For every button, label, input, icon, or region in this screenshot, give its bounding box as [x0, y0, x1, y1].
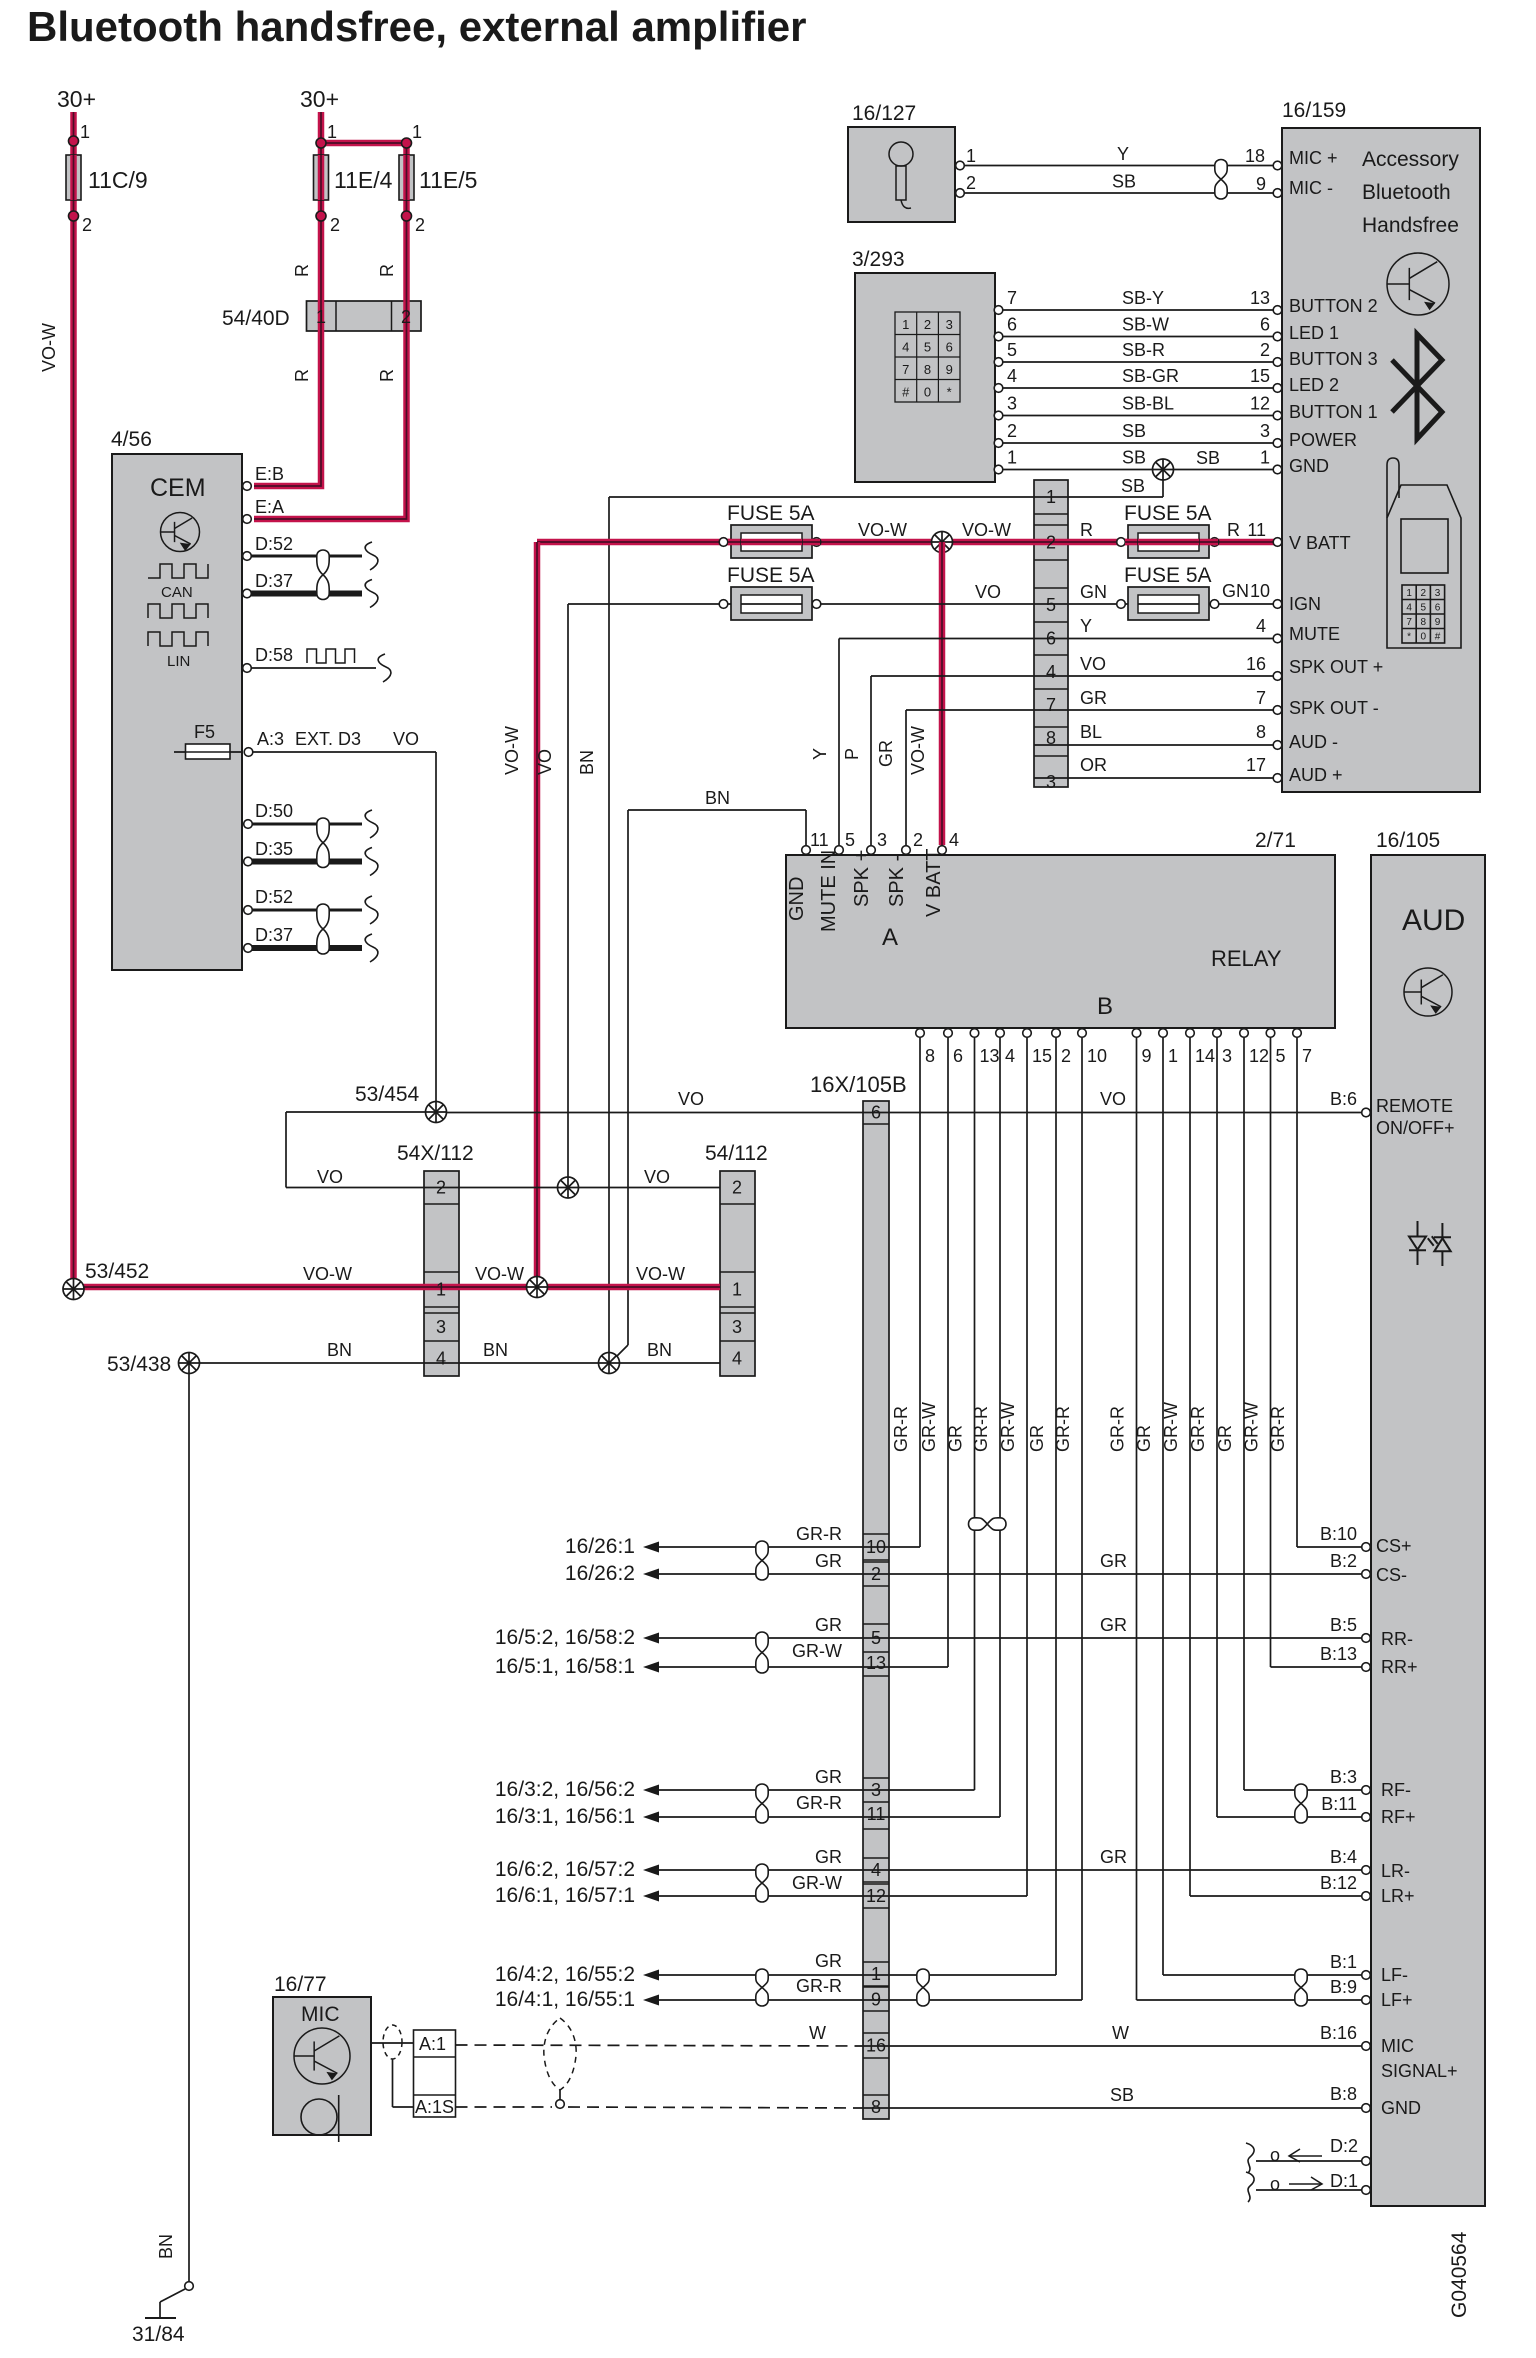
relay pin 7 bottom [1293, 1029, 1302, 1038]
svg-text:CS-: CS- [1376, 1565, 1407, 1585]
wire GR-R from relay pin 10 [1081, 1038, 1083, 2000]
svg-text:15: 15 [1250, 366, 1270, 386]
svg-text:54X/112: 54X/112 [397, 1142, 474, 1165]
svg-text:7: 7 [1406, 617, 1412, 628]
wire GR-R from relay pin 9 [1136, 1038, 1138, 2000]
svg-text:VO-W: VO-W [858, 520, 907, 540]
pin 2 of fuse 11E/4 [316, 211, 326, 221]
svg-text:1: 1 [1260, 448, 1270, 468]
svg-text:53/438: 53/438 [107, 1353, 171, 1376]
svg-text:3: 3 [1046, 772, 1056, 792]
relay pin 10 bottom [1078, 1029, 1087, 1038]
wire W cell 16 to AUD B:16 [863, 2045, 1364, 2047]
svg-text:2/71: 2/71 [1255, 829, 1296, 852]
svg-text:BL: BL [1080, 722, 1102, 742]
transistor symbol in 16/159 [1387, 253, 1449, 315]
wire D:35 with break [252, 859, 362, 865]
svg-text:GND: GND [1381, 2098, 1421, 2118]
svg-text:FUSE 5A: FUSE 5A [1124, 564, 1212, 587]
svg-text:OR: OR [1080, 755, 1107, 775]
svg-text:4: 4 [1005, 1046, 1015, 1066]
twisted pair symbol 16/4 pair [756, 1969, 768, 2006]
svg-text:GR: GR [876, 740, 896, 767]
svg-text:REMOTE: REMOTE [1376, 1096, 1453, 1116]
svg-text:14: 14 [1195, 1046, 1215, 1066]
svg-text:5: 5 [1421, 603, 1427, 614]
svg-text:VO-W: VO-W [636, 1264, 685, 1284]
pin E:B of CEM [243, 482, 252, 491]
svg-text:MUTE: MUTE [1289, 624, 1340, 644]
svg-text:GR: GR [1080, 688, 1107, 708]
svg-text:4: 4 [1406, 603, 1412, 614]
wire R branch through fuse 11E/5 and 54/40D pin 2 to CEM E:A [254, 143, 407, 519]
svg-text:GR: GR [815, 1951, 842, 1971]
wire D:52 CAN with break [251, 555, 362, 558]
svg-text:1: 1 [1168, 1046, 1178, 1066]
svg-text:7: 7 [902, 362, 909, 377]
svg-text:MIC: MIC [1381, 2036, 1414, 2056]
wire GR from relay pin 13 [974, 1038, 976, 1790]
svg-text:11: 11 [810, 830, 829, 850]
svg-text:2: 2 [1046, 533, 1056, 553]
svg-text:GR: GR [815, 1615, 842, 1635]
relay pin 11 GND [802, 846, 811, 855]
svg-text:8: 8 [1421, 617, 1427, 628]
svg-text:7: 7 [1046, 695, 1056, 715]
svg-text:2: 2 [924, 317, 931, 332]
svg-text:16/5:2, 16/58:2: 16/5:2, 16/58:2 [495, 1626, 635, 1649]
twisted pair symbol 16/6 pair [756, 1864, 768, 1902]
relay pin 15 bottom [1023, 1029, 1032, 1038]
svg-text:5: 5 [1046, 595, 1056, 615]
svg-text:Y: Y [810, 748, 830, 760]
twisted pair symbol 16/3 pair [756, 1784, 768, 1823]
svg-text:11E/5: 11E/5 [419, 167, 477, 193]
svg-text:6: 6 [1007, 315, 1017, 335]
pin 2 of fuse 11C/9 [69, 211, 79, 221]
svg-text:B:9: B:9 [1330, 1977, 1357, 1997]
svg-text:5: 5 [1007, 340, 1017, 360]
svg-text:D:52: D:52 [255, 534, 293, 554]
wire GR from relay pin 1 [1162, 1038, 1164, 1975]
svg-text:6: 6 [1260, 315, 1270, 335]
svg-text:13: 13 [866, 1653, 886, 1673]
svg-text:BN: BN [647, 1340, 672, 1360]
svg-text:V BATT: V BATT [1289, 533, 1351, 553]
pin D:58 of CEM [243, 664, 252, 673]
svg-text:D:2: D:2 [1330, 2136, 1358, 2156]
pin D:52 lower of CEM [244, 906, 253, 915]
svg-text:RF+: RF+ [1381, 1807, 1416, 1827]
svg-text:LED 2: LED 2 [1289, 375, 1339, 395]
svg-text:2: 2 [82, 215, 92, 235]
connector A:1 / A:1S [414, 2030, 456, 2117]
pin 1 of 16/127 [956, 161, 965, 170]
svg-text:o: o [1270, 2174, 1280, 2194]
svg-text:31/84: 31/84 [132, 2323, 185, 2346]
svg-text:8: 8 [925, 1046, 935, 1066]
svg-text:16/4:2, 16/55:2: 16/4:2, 16/55:2 [495, 1963, 635, 1986]
svg-text:5: 5 [845, 830, 855, 850]
svg-text:0: 0 [924, 385, 931, 400]
svg-text:SPK OUT +: SPK OUT + [1289, 657, 1383, 677]
svg-text:16/159: 16/159 [1282, 99, 1346, 122]
svg-text:1: 1 [316, 307, 326, 327]
svg-text:10: 10 [866, 1537, 886, 1557]
svg-text:POWER: POWER [1289, 430, 1357, 450]
svg-text:AUD: AUD [1402, 904, 1465, 937]
mobile phone symbol [1387, 458, 1461, 648]
svg-text:7: 7 [1007, 288, 1017, 308]
svg-text:V BATT: V BATT [923, 848, 945, 917]
wire GR from relay pin 12 to AUD B:3 [1244, 1789, 1364, 1791]
svg-text:16/4:1, 16/55:1: 16/4:1, 16/55:1 [495, 1988, 635, 2011]
svg-text:CAN: CAN [161, 584, 193, 601]
relay pin 12 bottom [1240, 1029, 1249, 1038]
svg-text:1: 1 [1406, 588, 1412, 599]
wire GR-R from relay pin 8 [919, 1038, 921, 1547]
svg-text:ON/OFF+: ON/OFF+ [1376, 1118, 1455, 1138]
wire D:50 with break [252, 823, 362, 826]
svg-text:B:6: B:6 [1330, 1089, 1357, 1109]
svg-text:EXT. D3: EXT. D3 [295, 729, 361, 749]
splice node on VO-W at relay feed [932, 532, 953, 553]
svg-text:R: R [377, 264, 397, 277]
wire BL from cell 8 to 16/159 AUD- [1034, 744, 1274, 746]
svg-text:FUSE 5A: FUSE 5A [727, 502, 815, 525]
svg-text:SB: SB [1122, 421, 1146, 441]
pin D:37 of CEM [243, 589, 252, 598]
svg-text:*: * [947, 385, 952, 400]
svg-text:3: 3 [871, 1780, 881, 1800]
svg-text:B:4: B:4 [1330, 1847, 1357, 1867]
svg-text:3: 3 [436, 1317, 446, 1337]
svg-text:8: 8 [1256, 722, 1266, 742]
bluetooth rune symbol [1392, 334, 1442, 439]
svg-text:D:50: D:50 [255, 801, 293, 821]
twisted pair symbol D:50/D:35 [317, 818, 329, 868]
svg-text:GR: GR [1100, 1551, 1127, 1571]
svg-text:E:A: E:A [255, 497, 284, 517]
svg-text:BN: BN [705, 788, 730, 808]
svg-text:BUTTON 2: BUTTON 2 [1289, 296, 1378, 316]
svg-text:G040564: G040564 [1448, 2231, 1471, 2318]
splice node on GND wire [1153, 459, 1174, 480]
svg-text:30+: 30+ [300, 86, 339, 112]
svg-text:5: 5 [924, 340, 931, 355]
wire GR-R from relay pin 9 to AUD B:9 [1137, 1999, 1365, 2001]
transistor symbol in 16/77 [294, 2028, 350, 2084]
wire VO from cell 4 to 16/159 SPK OUT+ and relay SPK+ [871, 675, 1274, 677]
svg-text:16/3:1, 16/56:1: 16/3:1, 16/56:1 [495, 1805, 635, 1828]
fuse 11C/9 [66, 155, 81, 200]
svg-text:Y: Y [1117, 144, 1129, 164]
svg-text:A:1S: A:1S [415, 2097, 454, 2117]
svg-text:2: 2 [415, 215, 425, 235]
svg-text:GR-R: GR-R [1188, 1406, 1208, 1452]
svg-text:1: 1 [1007, 448, 1017, 468]
svg-text:A:3: A:3 [257, 729, 284, 749]
svg-text:B:8: B:8 [1330, 2084, 1357, 2104]
svg-text:3: 3 [1435, 588, 1441, 599]
wire GR from relay pin 1 to AUD B:1 [1163, 1974, 1364, 1976]
svg-text:7: 7 [1302, 1046, 1312, 1066]
wire GR-R from relay pin 4 [999, 1038, 1001, 1817]
svg-text:4: 4 [436, 1349, 446, 1369]
svg-text:16/3:2, 16/56:2: 16/3:2, 16/56:2 [495, 1778, 635, 1801]
svg-text:2: 2 [401, 307, 411, 327]
svg-text:2: 2 [1421, 588, 1427, 599]
svg-text:MIC +: MIC + [1289, 148, 1338, 168]
svg-text:2: 2 [1260, 340, 1270, 360]
wire GR from cell 7 to 16/159 SPK OUT- and relay SPK- [906, 709, 1274, 711]
relay pin 5 MUTE IN [835, 846, 844, 855]
svg-text:1: 1 [80, 122, 90, 142]
svg-text:2: 2 [871, 1564, 881, 1584]
svg-text:1: 1 [732, 1280, 742, 1300]
svg-text:GR-W: GR-W [1242, 1402, 1262, 1452]
svg-text:6: 6 [953, 1046, 963, 1066]
relay pin 14 bottom [1186, 1029, 1195, 1038]
relay pin 8 bottom [916, 1029, 925, 1038]
svg-text:SB-W: SB-W [1122, 315, 1169, 335]
svg-text:LF+: LF+ [1381, 1990, 1413, 2010]
svg-text:BN: BN [483, 1340, 508, 1360]
svg-text:GND: GND [1289, 456, 1329, 476]
wire GR from relay pin 12 [1243, 1038, 1245, 1790]
svg-text:CEM: CEM [150, 474, 206, 502]
svg-text:16X/105B: 16X/105B [810, 1072, 907, 1097]
svg-text:54/40D: 54/40D [222, 307, 290, 330]
svg-text:16/26:2: 16/26:2 [565, 1562, 635, 1585]
wire GR-W from relay pin 15 [1026, 1038, 1028, 1896]
svg-text:6: 6 [946, 340, 953, 355]
connector 54X/112 body [424, 1171, 459, 1376]
svg-text:16: 16 [866, 2036, 886, 2056]
shield drain to ground point [559, 2090, 561, 2100]
svg-text:VO: VO [1080, 654, 1106, 674]
svg-text:R: R [292, 369, 312, 382]
svg-text:SIGNAL+: SIGNAL+ [1381, 2061, 1458, 2081]
svg-text:LR+: LR+ [1381, 1886, 1415, 1906]
twisted pair symbol mic wires [1215, 160, 1227, 200]
svg-text:VO-W: VO-W [962, 520, 1011, 540]
pin D:52 of CEM [243, 552, 252, 561]
svg-text:16/5:1, 16/58:1: 16/5:1, 16/58:1 [495, 1655, 635, 1678]
svg-text:8: 8 [871, 2097, 881, 2117]
svg-text:BUTTON 3: BUTTON 3 [1289, 349, 1378, 369]
svg-text:AUD +: AUD + [1289, 765, 1343, 785]
svg-text:#: # [1435, 632, 1441, 643]
wire BN from 53/438 to 54/112 cell 4 [189, 1362, 720, 1364]
svg-text:VO-W: VO-W [475, 1264, 524, 1284]
wire SB mic- to 16/159 pin 9 [964, 192, 1274, 194]
svg-text:3: 3 [1260, 421, 1270, 441]
pin D:35 of CEM [244, 857, 253, 866]
svg-text:12: 12 [1250, 394, 1270, 414]
svg-text:SPK +: SPK + [851, 850, 873, 907]
svg-text:D:35: D:35 [255, 839, 293, 859]
svg-text:1: 1 [902, 317, 909, 332]
pin 1 of fuse 11E/4 [316, 138, 326, 148]
svg-text:SPK OUT -: SPK OUT - [1289, 698, 1379, 718]
svg-text:SB-GR: SB-GR [1122, 366, 1179, 386]
svg-text:Y: Y [1080, 616, 1092, 636]
relay pin 13 bottom [970, 1029, 979, 1038]
svg-text:SB-R: SB-R [1122, 340, 1165, 360]
pin 5 of 3/293 wire SB-R to 16/159 pin 2 [994, 358, 1003, 367]
svg-text:10: 10 [1250, 581, 1270, 601]
svg-text:12: 12 [1249, 1046, 1269, 1066]
svg-text:6: 6 [1435, 603, 1441, 614]
svg-text:11E/4: 11E/4 [334, 167, 393, 193]
LIN square wave symbol [148, 632, 208, 646]
svg-text:9: 9 [871, 1990, 881, 2010]
svg-text:9: 9 [946, 362, 953, 377]
svg-text:30+: 30+ [57, 86, 96, 112]
svg-text:GR: GR [1100, 1615, 1127, 1635]
svg-text:53/452: 53/452 [85, 1260, 149, 1283]
svg-text:F5: F5 [194, 722, 215, 742]
svg-text:B:5: B:5 [1330, 1615, 1357, 1635]
svg-text:VO: VO [1100, 1089, 1126, 1109]
square wave symbol on D:58 wire [307, 649, 355, 663]
svg-text:9: 9 [1142, 1046, 1152, 1066]
svg-text:SB-BL: SB-BL [1122, 394, 1174, 414]
splice node VO-W mid [527, 1277, 548, 1298]
keypad symbol in 3/293 [895, 312, 960, 402]
svg-text:2: 2 [913, 830, 923, 850]
svg-text:2: 2 [1061, 1046, 1071, 1066]
svg-text:VO-W: VO-W [39, 323, 59, 372]
svg-text:GR-W: GR-W [998, 1402, 1018, 1452]
wire GR-R from relay pin 3 to AUD B:11 [1217, 1816, 1364, 1818]
svg-text:GR-W: GR-W [919, 1402, 939, 1452]
svg-text:W: W [809, 2023, 826, 2043]
wire D:58 LIN with break [251, 667, 376, 669]
wire VO-W main power feed [537, 539, 1274, 546]
wire VO from CEM A:3 to node 53/454 [253, 751, 436, 753]
svg-text:3: 3 [946, 317, 953, 332]
pin 6 of 3/293 wire SB-W to 16/159 pin 6 [994, 332, 1003, 341]
svg-text:3: 3 [732, 1317, 742, 1337]
svg-text:BN: BN [156, 2234, 176, 2259]
svg-text:VO: VO [678, 1089, 704, 1109]
splice node 53/454 [426, 1102, 447, 1123]
wire GR-R from relay pin 7 to AUD B:10 [1297, 1546, 1364, 1548]
svg-text:o: o [1270, 2145, 1280, 2165]
pin 2 of 16/127 [956, 189, 965, 198]
svg-text:RELAY: RELAY [1211, 946, 1282, 971]
ground connection 31/84 [185, 2282, 194, 2291]
svg-text:CS+: CS+ [1376, 1536, 1412, 1556]
svg-text:0: 0 [1421, 632, 1427, 643]
svg-text:D:37: D:37 [255, 571, 293, 591]
svg-text:13: 13 [1250, 288, 1270, 308]
svg-text:R: R [1080, 520, 1093, 540]
svg-text:3: 3 [1007, 394, 1017, 414]
microphone symbol in 16/77 [301, 2095, 339, 2142]
transistor symbol in CEM [161, 513, 200, 552]
wire VO-W from 30+ through fuse 11C/9 down to node 53/452 [70, 112, 77, 1284]
wire R from 30+ through fuse 11E/4 and 54/40D pin 1 to CEM E:B [254, 112, 321, 486]
svg-text:SB: SB [1110, 2085, 1134, 2105]
pin 2 of 3/293 wire SB to 16/159 pin 3 [994, 439, 1003, 448]
svg-text:VO: VO [535, 749, 555, 775]
wire GR-W from relay pin 6 [947, 1038, 949, 1667]
wire GR-R from relay pin 7 [1296, 1038, 1298, 1547]
pin D:50 of CEM [244, 820, 253, 829]
svg-text:GR: GR [1100, 1847, 1127, 1867]
svg-text:15: 15 [1032, 1046, 1052, 1066]
svg-text:7: 7 [1256, 688, 1266, 708]
svg-text:B:11: B:11 [1321, 1794, 1357, 1814]
twisted pair symbol B:3/B:11 [1295, 1784, 1307, 1823]
svg-text:R: R [292, 264, 312, 277]
svg-text:B: B [1097, 993, 1113, 1020]
svg-text:R: R [377, 369, 397, 382]
svg-text:1: 1 [1046, 487, 1056, 507]
svg-text:4: 4 [949, 830, 959, 850]
svg-text:Bluetooth: Bluetooth [1362, 181, 1451, 204]
relay pin 9 bottom [1132, 1029, 1141, 1038]
shield oval large [544, 2018, 576, 2090]
svg-text:SB: SB [1122, 448, 1146, 468]
splice node BN mid [599, 1353, 620, 1374]
svg-text:LED 1: LED 1 [1289, 323, 1339, 343]
svg-text:SB: SB [1112, 172, 1136, 192]
relay pin 2 SPK- [902, 846, 911, 855]
svg-text:FUSE 5A: FUSE 5A [727, 564, 815, 587]
svg-text:4: 4 [1256, 616, 1266, 636]
svg-text:B:3: B:3 [1330, 1767, 1357, 1787]
svg-text:10: 10 [1087, 1046, 1107, 1066]
svg-text:54/112: 54/112 [705, 1142, 768, 1165]
svg-text:18: 18 [1245, 146, 1265, 166]
wire D:37 lower with break [252, 945, 362, 951]
svg-text:GR-R: GR-R [891, 1406, 911, 1452]
svg-text:16/105: 16/105 [1376, 829, 1440, 852]
transistor symbol in AUD [1404, 968, 1452, 1016]
relay pin 3 SPK+ [867, 846, 876, 855]
relay pin 3 bottom [1213, 1029, 1222, 1038]
wire GR-W from relay pin 14 [1189, 1038, 1191, 1896]
pin 1 of 3/293 wire SB to 16/159 pin 1 [994, 465, 1003, 474]
svg-text:B:1: B:1 [1330, 1952, 1357, 1972]
CAN square wave symbols [148, 564, 208, 578]
wire VO-W vertical down to node 53/452 line [534, 542, 541, 1284]
svg-text:1: 1 [436, 1280, 446, 1300]
svg-text:17: 17 [1246, 755, 1266, 775]
svg-text:16/127: 16/127 [852, 102, 916, 125]
wire D:37 CAN with break [251, 591, 362, 597]
svg-text:Bluetooth handsfree, external: Bluetooth handsfree, external amplifier [27, 3, 807, 50]
svg-text:MIC -: MIC - [1289, 178, 1333, 198]
wire Y from cell 6 to 16/159 MUTE and relay MUTE IN [839, 638, 1274, 640]
svg-text:8: 8 [924, 362, 931, 377]
svg-text:R: R [1227, 520, 1240, 540]
svg-text:4: 4 [902, 340, 909, 355]
svg-text:16/6:2, 16/57:2: 16/6:2, 16/57:2 [495, 1858, 635, 1881]
connector 16X/105B body [863, 1101, 889, 2119]
relay pin 1 bottom [1159, 1029, 1168, 1038]
svg-text:VO: VO [644, 1167, 670, 1187]
svg-text:LR-: LR- [1381, 1861, 1410, 1881]
svg-text:LF-: LF- [1381, 1965, 1408, 1985]
svg-text:GN: GN [1080, 582, 1107, 602]
svg-text:3: 3 [1222, 1046, 1232, 1066]
wire SB from splice to harness cell 1 [1162, 480, 1164, 497]
